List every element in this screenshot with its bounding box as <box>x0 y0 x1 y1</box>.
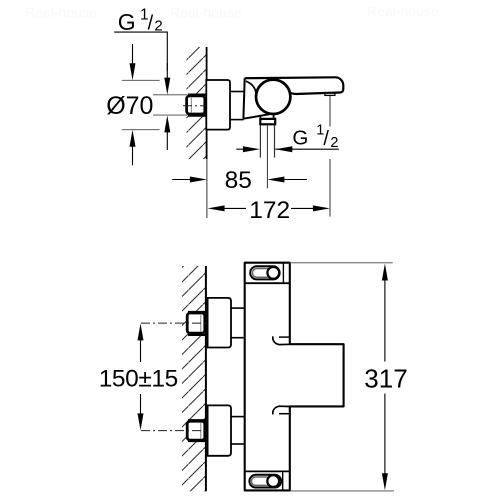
handle cap circle <box>256 80 290 114</box>
body bottom slant <box>243 114 269 119</box>
body left edge <box>243 78 244 119</box>
wall face line bottom <box>205 266 207 491</box>
top plate slot <box>250 266 279 279</box>
body curl bottom <box>273 406 290 414</box>
upper flange <box>208 298 231 348</box>
lower union step <box>205 424 208 426</box>
upper nut <box>187 313 205 333</box>
top plate inner line <box>282 263 284 284</box>
lower nut inner line <box>200 423 202 439</box>
dim G1/2 top leader <box>114 32 167 70</box>
svg-text:G: G <box>292 126 308 149</box>
svg-text:Ø70: Ø70 <box>106 92 153 120</box>
stub centerline <box>266 125 268 189</box>
svg-text:Real-house: Real-house <box>170 4 242 20</box>
lower connector <box>231 416 245 418</box>
svg-text:Real-house: Real-house <box>367 3 439 19</box>
svg-text:Real-house: Real-house <box>25 4 97 20</box>
svg-text:2: 2 <box>330 135 338 151</box>
dim 85 right arrow <box>267 177 284 183</box>
mixer body outline <box>245 263 344 491</box>
dim G1/2 mid right arrow <box>275 146 292 152</box>
outlet stub nut <box>260 119 275 124</box>
ext lines 317 <box>289 262 393 264</box>
bottom plate inner line <box>282 471 284 490</box>
svg-text:G: G <box>118 9 136 35</box>
union nut <box>187 96 205 114</box>
dim 172 right arrow <box>291 207 314 209</box>
svg-text:317: 317 <box>364 363 407 393</box>
wall face line <box>206 47 208 159</box>
svg-text:172: 172 <box>249 197 290 224</box>
dim 317 line upper <box>382 264 388 281</box>
lower union bars <box>188 419 207 421</box>
spout extension line upper <box>329 96 331 127</box>
stub right edge <box>273 113 275 119</box>
top plate bottom line <box>245 282 290 284</box>
watermark row <box>25 3 439 20</box>
ext lines O70 <box>122 79 160 81</box>
svg-text:150±15: 150±15 <box>99 365 178 392</box>
dim 150 line lower <box>140 394 142 414</box>
upper union step <box>205 316 208 318</box>
escutcheon <box>206 80 230 130</box>
ext lines G1/2 top <box>153 94 188 96</box>
mixer body fill <box>245 263 344 491</box>
body curl top <box>273 336 290 344</box>
dim 172 left arrow <box>208 205 225 211</box>
mousseur nub <box>325 93 335 95</box>
upper connector <box>231 307 245 309</box>
upper supply centerline <box>141 322 207 324</box>
body left shoulder <box>246 81 256 95</box>
supply centerline <box>183 105 207 107</box>
upper union bars <box>188 311 207 313</box>
dim O70 arrows <box>132 44 134 64</box>
svg-text:85: 85 <box>225 167 252 194</box>
lower nut <box>187 421 205 440</box>
stub thread lines <box>259 125 261 158</box>
dim 85 left arrow <box>172 179 190 181</box>
wall face extension line <box>206 159 208 218</box>
bottom plate slot <box>249 475 281 488</box>
dim 317 line lower <box>384 394 386 476</box>
nut inner line <box>190 98 192 113</box>
connector <box>230 91 244 93</box>
union step lines <box>204 99 207 101</box>
wall hatch (front view) <box>182 266 206 491</box>
svg-text:/: / <box>323 128 329 150</box>
wall hatch (top view) <box>187 47 207 159</box>
lower flange <box>208 405 231 455</box>
spout extension line lower <box>329 159 331 217</box>
upper nut inner line <box>200 315 202 332</box>
lower supply centerline <box>141 430 207 432</box>
dim 150 line upper <box>138 323 144 340</box>
dim G1/2 top arrows <box>166 63 168 78</box>
bottom plate top line <box>245 470 290 472</box>
union body bars <box>188 93 207 95</box>
body outline <box>245 77 344 94</box>
dim G1/2 mid left arrow <box>236 148 244 150</box>
svg-text:/: / <box>148 12 154 34</box>
